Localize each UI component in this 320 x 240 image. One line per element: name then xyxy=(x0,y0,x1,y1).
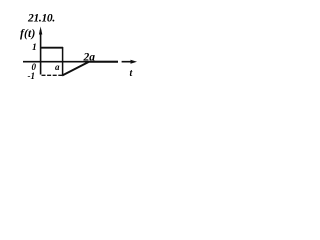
svg-text:1: 1 xyxy=(32,43,37,53)
plot: top segment f=1 from 0 to a xyxy=(41,47,63,49)
plot: ramp from (a,-1) to (2a,0) xyxy=(62,62,88,76)
svg-text:a: a xyxy=(55,62,60,72)
x-axis arrowhead xyxy=(131,60,138,64)
plot: f=0 along axis after 2a xyxy=(88,61,118,63)
scan gap in x-axis xyxy=(118,60,122,65)
plot: vertical drop at t=a xyxy=(62,47,64,75)
x-axis xyxy=(23,61,132,63)
svg-text:f(t): f(t) xyxy=(20,28,35,40)
y-axis xyxy=(40,30,42,75)
svg-text:21.10.: 21.10. xyxy=(27,13,55,25)
helper line at level -1 xyxy=(42,74,63,76)
y-axis arrowhead xyxy=(39,27,42,35)
svg-text:-1: -1 xyxy=(28,71,36,81)
